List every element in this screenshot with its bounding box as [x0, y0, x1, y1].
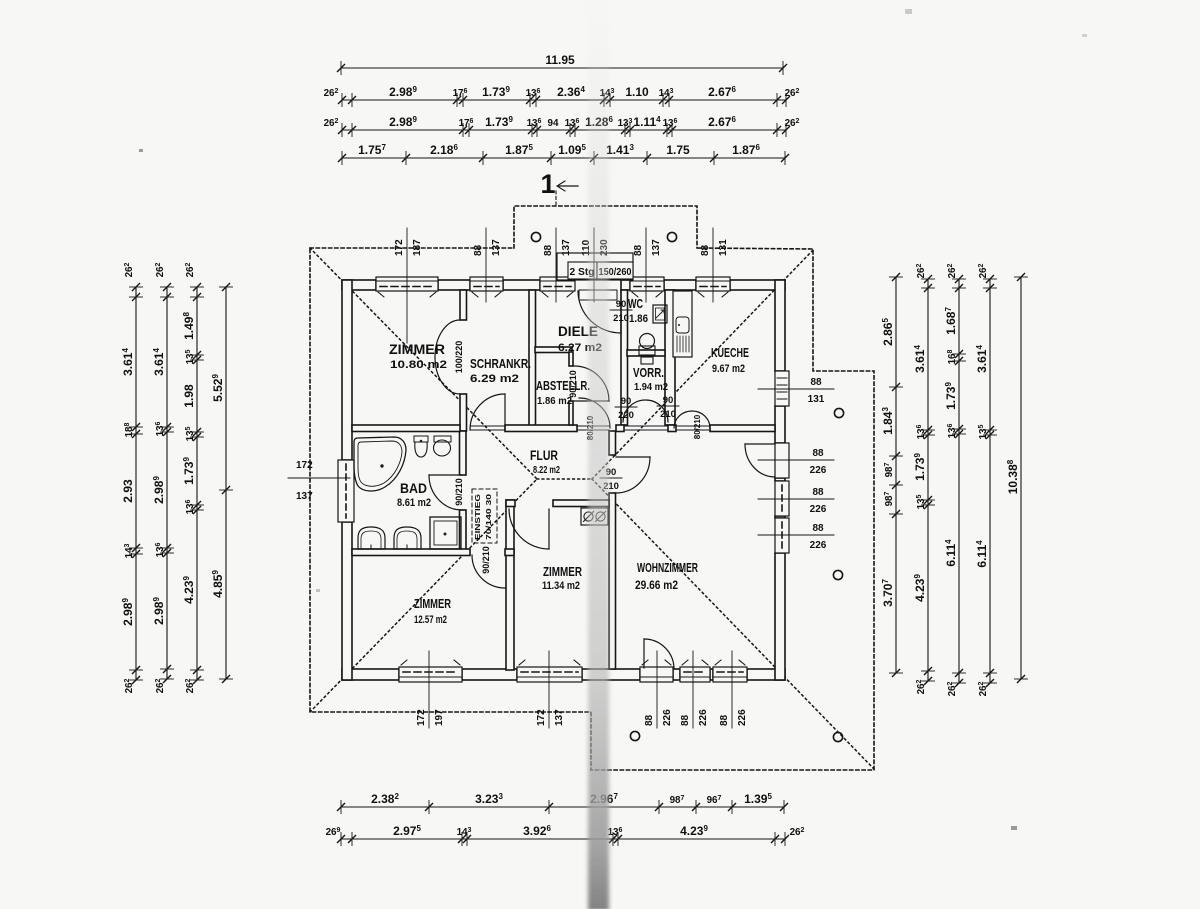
svg-text:9.67 m2: 9.67 m2	[712, 363, 745, 375]
bottom dimension chain row A	[341, 806, 784, 808]
svg-text:226: 226	[737, 709, 748, 726]
svg-text:90: 90	[621, 396, 632, 407]
svg-text:1.86 m2: 1.86 m2	[537, 395, 572, 407]
svg-text:226: 226	[810, 465, 827, 476]
bottom marker 88/226 a	[656, 651, 658, 728]
svg-text:1.86: 1.86	[629, 313, 648, 325]
svg-text:VORR.: VORR.	[633, 366, 664, 380]
top dimension chain row 4	[342, 157, 785, 159]
window bottom 172 (ZIMMER bl)	[399, 667, 462, 682]
bottom marker 88/226 c	[731, 651, 733, 728]
shower BAD	[430, 517, 461, 549]
svg-text:226: 226	[662, 709, 673, 726]
svg-text:12.57 m2: 12.57 m2	[414, 614, 447, 626]
svg-text:6.29 m2: 6.29 m2	[470, 373, 519, 385]
svg-text:131: 131	[718, 239, 729, 256]
svg-text:KUECHE: KUECHE	[711, 345, 749, 360]
left dimension chain L4	[225, 287, 227, 679]
drill hole circle 3	[834, 408, 843, 417]
svg-text:88: 88	[812, 487, 824, 498]
bathtub corner BAD	[354, 437, 406, 491]
svg-text:226: 226	[810, 504, 827, 515]
wall ABSTELLR top	[535, 347, 572, 353]
exterior wall left	[342, 280, 352, 460]
wall marker 88/137 c	[645, 228, 647, 302]
svg-text:2.93: 2.93	[121, 479, 135, 503]
svg-text:11.95: 11.95	[545, 53, 575, 67]
entrance porch outline	[557, 253, 633, 280]
door WOHNZIMMER left	[616, 456, 650, 458]
svg-text:88: 88	[473, 244, 484, 256]
interior wall V3 corridor/WC-VORR	[621, 290, 628, 425]
threshold mat inside entrance	[579, 290, 617, 300]
interior wall V6 WOHNZIMMER left	[609, 431, 616, 455]
left dimension chain L2	[166, 287, 168, 679]
door ZIMMER bl from FLUR	[472, 555, 505, 588]
svg-text:137: 137	[651, 239, 662, 256]
right dimension chain R2	[927, 279, 929, 681]
WC sink	[653, 305, 667, 323]
svg-text:70/140 30: 70/140 30	[486, 494, 493, 540]
svg-text:88: 88	[719, 714, 730, 726]
svg-text:226: 226	[698, 709, 709, 726]
svg-text:94: 94	[548, 118, 559, 129]
svg-text:WC: WC	[628, 297, 643, 311]
scan fold gray band	[588, 0, 609, 909]
door ABSTELLR	[574, 400, 609, 402]
scan specks	[139, 9, 1087, 830]
svg-text:226: 226	[810, 540, 827, 551]
svg-text:11.34 m2: 11.34 m2	[542, 580, 580, 592]
roof overhang dashed outline	[310, 206, 874, 770]
svg-text:88: 88	[543, 244, 554, 256]
svg-text:8.61 m2: 8.61 m2	[397, 497, 431, 509]
door FLUR corridor	[579, 398, 610, 428]
svg-text:29.66 m2: 29.66 m2	[635, 580, 678, 592]
window right 88/226 a	[775, 481, 789, 516]
wall H2 ZIMMER mid top	[506, 500, 515, 507]
right dimension chain R4	[989, 279, 991, 683]
wall ABSTELLR right	[569, 352, 573, 366]
roof hip dotted lines	[310, 248, 874, 769]
svg-text:90: 90	[616, 299, 627, 310]
svg-text:80/210: 80/210	[693, 414, 702, 439]
svg-text:SCHRANKR.: SCHRANKR.	[470, 356, 531, 371]
svg-text:90/210: 90/210	[568, 370, 578, 398]
window right 88/226 b	[775, 518, 789, 553]
exterior wall bottom	[342, 669, 399, 680]
window right 88/131 (KUECHE)	[775, 371, 789, 406]
stair label boxes 2 Stg 150/260	[568, 262, 597, 279]
drill hole circle 5	[630, 731, 639, 740]
svg-text:137: 137	[296, 491, 313, 502]
svg-text:197: 197	[434, 709, 445, 726]
toilet BAD	[414, 436, 428, 442]
svg-text:137: 137	[561, 239, 572, 256]
window top 172 (ZIMMER)	[376, 277, 438, 291]
door KUECHE semicircle	[674, 411, 710, 428]
top dimension chain row 2	[342, 99, 786, 101]
left marker 172/137 BAD window	[288, 477, 350, 479]
window top 88 (SCHRANKR)	[470, 277, 503, 291]
svg-text:1.98: 1.98	[182, 384, 196, 408]
top dimension chain row 3	[342, 129, 786, 131]
svg-text:1: 1	[540, 169, 555, 199]
window left 172 (BAD)	[338, 460, 354, 522]
svg-text:88: 88	[680, 714, 691, 726]
wall H3 BAD bottom	[352, 549, 470, 556]
window top 88 (DIELE)	[540, 277, 575, 291]
svg-text:137: 137	[554, 709, 565, 726]
window top 88 (WC)	[630, 277, 664, 291]
svg-text:88: 88	[633, 244, 644, 256]
svg-text:172: 172	[536, 709, 547, 726]
svg-text:10.80 m2: 10.80 m2	[390, 359, 447, 371]
drill hole circle 2	[667, 232, 676, 241]
svg-text:88: 88	[644, 714, 655, 726]
window bottom 88 b (WOHNZIMMER)	[713, 667, 747, 682]
svg-text:1.94 m2: 1.94 m2	[634, 381, 668, 393]
WC toilet	[640, 334, 655, 349]
svg-text:88: 88	[810, 377, 822, 388]
interior wall V2 SCHRANKR/DIELE	[529, 290, 536, 431]
svg-text:172: 172	[416, 709, 427, 726]
svg-text:WOHNZIMMER: WOHNZIMMER	[637, 560, 698, 575]
svg-text:172: 172	[296, 460, 313, 471]
wall marker 88/137 b	[555, 228, 557, 302]
left dimension chain L3	[196, 287, 198, 680]
svg-text:187: 187	[412, 239, 423, 256]
right dimension chain R1	[895, 277, 897, 673]
drill hole circle 6	[833, 732, 842, 741]
svg-text:10.388: 10.388	[1006, 459, 1020, 494]
door bottom 88 (WOHNZIMMER)	[640, 667, 673, 682]
svg-text:90/210: 90/210	[454, 478, 464, 506]
svg-text:88: 88	[812, 448, 824, 459]
svg-text:8.22 m2: 8.22 m2	[533, 464, 560, 476]
window bottom 172 (ZIMMER mid)	[517, 667, 582, 682]
door VORR semicircle	[623, 400, 668, 422]
door ZIMMER mid	[548, 509, 550, 549]
wall H1 band y425-431	[352, 425, 460, 432]
exterior wall right	[775, 280, 785, 371]
svg-text:172: 172	[394, 239, 405, 256]
wall marker 110/230 door	[593, 228, 595, 302]
right marker 88/226 a	[758, 498, 834, 500]
skylight symbol box ZIMMER mid	[581, 508, 608, 525]
svg-text:BAD: BAD	[400, 481, 427, 496]
interior wall V4 WC-VORR/KUECHE	[665, 290, 675, 425]
svg-text:EINSTIEG: EINSTIEG	[475, 493, 482, 540]
svg-text:210: 210	[660, 409, 676, 420]
drill hole circle 1	[531, 232, 540, 241]
window top 88 (KUECHE)	[696, 277, 730, 291]
top dimension chain total 11.95	[341, 67, 783, 69]
door right 88/226 (WOHNZIMMER)	[775, 443, 789, 478]
interior wall V5 ZIMMER bl / ZIMMER mid	[506, 500, 514, 670]
right dimension chain R3	[958, 279, 960, 683]
svg-text:ZIMMER: ZIMMER	[543, 565, 582, 579]
wall marker 172/187	[406, 228, 408, 343]
left dimension chain L1	[135, 287, 137, 680]
svg-text:1.75: 1.75	[666, 143, 690, 157]
exterior wall top	[342, 280, 376, 290]
KUECHE sink unit	[673, 291, 692, 357]
interior wall V1 lower BAD right	[460, 431, 467, 475]
svg-text:90: 90	[663, 395, 674, 406]
svg-text:ZIMMER: ZIMMER	[414, 597, 451, 611]
door ZIMMER1/SCHRANKR semicircle	[435, 320, 460, 394]
bottom marker 172/197	[428, 651, 430, 728]
right marker 88/226 b	[758, 534, 834, 536]
svg-text:88: 88	[700, 244, 711, 256]
bottom dimension chain row B	[341, 838, 785, 840]
svg-text:ABSTELLR.: ABSTELLR.	[536, 379, 590, 393]
bottom marker 172/137	[548, 651, 550, 728]
svg-text:88: 88	[812, 523, 824, 534]
right dimension chain R5	[1020, 277, 1022, 679]
door WOHNZIMMER bottom	[643, 639, 645, 668]
door SCHRANKR bottom	[504, 394, 506, 430]
door BAD	[429, 474, 462, 476]
bottom marker 88/226 b	[692, 651, 694, 728]
thresholds across H1 openings	[470, 425, 505, 427]
svg-text:ZIMMER: ZIMMER	[389, 342, 445, 357]
wall marker 88/137 a	[485, 228, 487, 302]
sink round BAD	[434, 436, 451, 442]
washbasins BAD bottom	[358, 527, 385, 549]
right marker 88/226 door	[758, 459, 834, 461]
interior wall V1 ZIMMER/SCHRANKR	[460, 290, 467, 320]
svg-text:1.10: 1.10	[625, 85, 649, 99]
wall marker 88/131	[712, 228, 714, 302]
svg-text:137: 137	[491, 239, 502, 256]
svg-text:220: 220	[618, 410, 634, 421]
entrance door DIELE	[620, 291, 622, 333]
svg-text:FLUR: FLUR	[530, 448, 558, 463]
right marker 88/131 KUECHE window	[758, 388, 834, 390]
wall WC bottom	[627, 350, 665, 356]
svg-text:131: 131	[808, 394, 825, 405]
window bottom 88 a (WOHNZIMMER)	[680, 667, 710, 682]
svg-text:90/210: 90/210	[481, 546, 491, 574]
svg-text:100/220: 100/220	[454, 341, 464, 374]
door WOHNZIMMER right	[745, 443, 775, 445]
drill hole circle 4	[833, 570, 842, 579]
EINSTIEG dashed hatch box	[472, 489, 497, 543]
svg-text:210: 210	[613, 313, 629, 324]
